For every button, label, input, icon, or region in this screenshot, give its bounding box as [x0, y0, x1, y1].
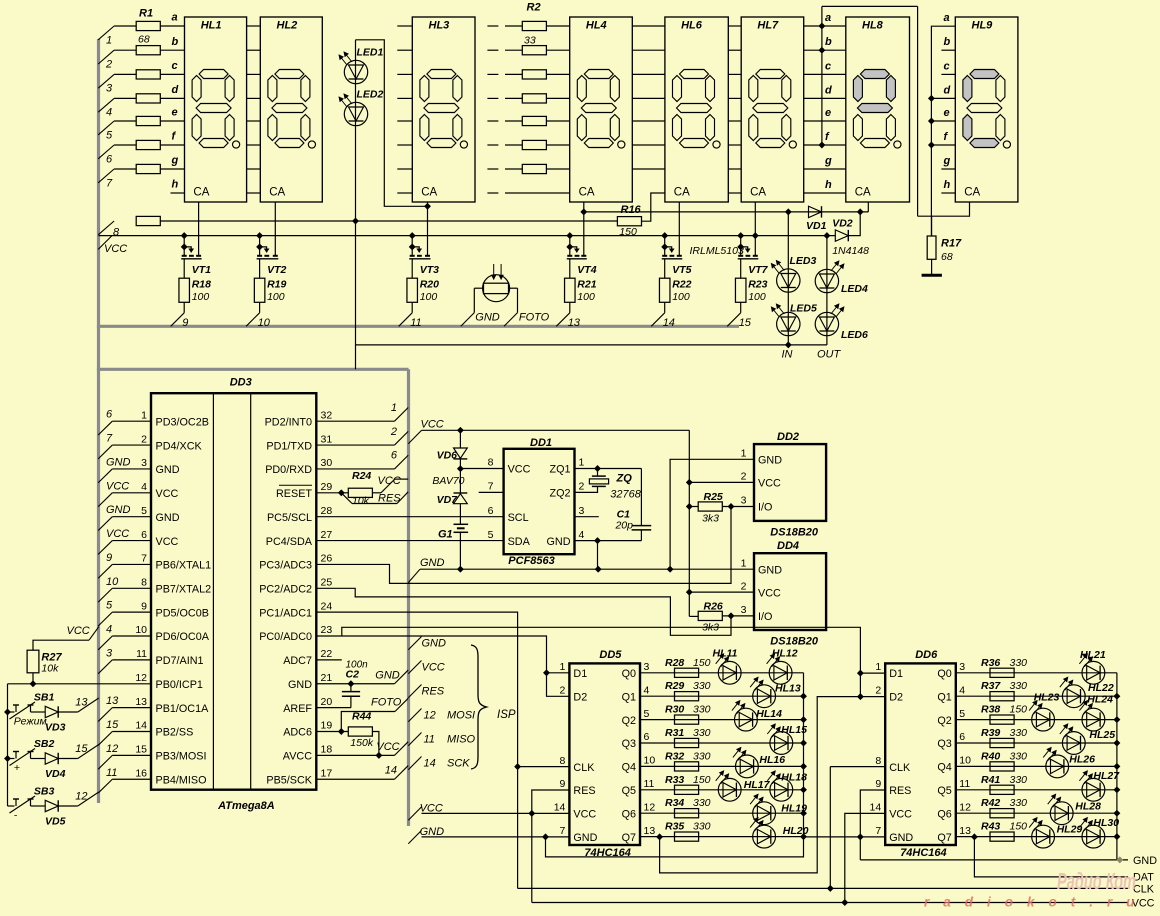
svg-text:VCC: VCC — [758, 478, 781, 490]
wire HL6-HL7 link row c — [728, 73, 741, 75]
svg-text:PB3/MOSI: PB3/MOSI — [156, 751, 207, 763]
wire pin 8 — [112, 587, 151, 589]
resistor row b — [136, 46, 160, 55]
svg-text:R22: R22 — [672, 279, 691, 291]
svg-text:LED1: LED1 — [357, 46, 384, 58]
svg-text:330: 330 — [1010, 797, 1028, 809]
svg-text:HL9: HL9 — [972, 20, 994, 32]
svg-text:9: 9 — [182, 317, 188, 329]
svg-text:SB1: SB1 — [34, 691, 55, 703]
wire DD4 VCC — [689, 591, 754, 593]
wire Q5 dd6 row — [956, 789, 1117, 791]
wire Q2 dd6 row — [956, 719, 1117, 721]
wire HL3 stub row f — [397, 144, 412, 146]
node dd4 vcc — [686, 589, 692, 595]
node HL3 CA junction — [425, 203, 431, 209]
svg-text:1: 1 — [741, 448, 747, 460]
node dd6 vcc bottom — [842, 900, 848, 906]
svg-text:VT5: VT5 — [672, 264, 691, 276]
svg-text:VD2: VD2 — [832, 217, 853, 229]
wire pin4 GND — [575, 540, 642, 542]
svg-text:5: 5 — [106, 129, 113, 141]
node dd5 res-vcc — [529, 811, 535, 817]
bus entry 4 — [98, 98, 114, 118]
node gnd dd2 column — [667, 566, 673, 572]
svg-text:VCC: VCC — [758, 587, 781, 599]
wire VCC dd5 row — [422, 812, 570, 814]
7-segment display HL6 — [665, 17, 728, 202]
svg-text:DD3: DD3 — [230, 376, 252, 388]
svg-text:ZQ1: ZQ1 — [550, 464, 571, 476]
photoresistor — [474, 264, 517, 313]
bus entry VCC r27 — [67, 625, 99, 640]
resistor R35 330 — [665, 821, 711, 842]
bus entry 10 — [246, 313, 271, 329]
node dd5 clk — [515, 764, 521, 770]
wire gnd drop — [597, 541, 599, 570]
LED LED5 — [771, 303, 817, 336]
svg-text:GND: GND — [156, 512, 180, 524]
svg-text:SB3: SB3 — [34, 785, 55, 797]
svg-text:VD1: VD1 — [806, 220, 827, 232]
wire VT2 CA drain vertical — [274, 202, 276, 256]
pin 14 DD5 VCC — [554, 802, 597, 821]
svg-text:7: 7 — [106, 177, 113, 189]
node r27 bottom — [30, 681, 36, 687]
wire HL3 stub row e — [397, 120, 412, 122]
svg-text:10: 10 — [135, 624, 147, 636]
LED LED1 — [339, 46, 384, 83]
pin 28 PC5/SCL — [267, 505, 332, 524]
svg-text:20p: 20p — [614, 519, 633, 531]
svg-text:HL17: HL17 — [744, 779, 771, 791]
svg-text:I/O: I/O — [758, 611, 772, 623]
svg-text:27: 27 — [321, 529, 333, 541]
svg-text:LED6: LED6 — [841, 329, 868, 341]
resistor R20 — [407, 259, 439, 313]
wire pin 2 — [112, 444, 151, 446]
svg-text:Q6: Q6 — [622, 808, 636, 820]
bus entry 13 left — [98, 695, 119, 721]
wire pin8 VCC — [460, 468, 503, 470]
bus entry 8 — [98, 221, 120, 239]
svg-text:1: 1 — [391, 402, 397, 414]
svg-text:150: 150 — [1010, 704, 1028, 716]
svg-text:PC5/SCL: PC5/SCL — [267, 512, 312, 524]
node sb2 — [5, 756, 11, 762]
svg-text:R32: R32 — [665, 750, 684, 762]
bus frame right vertical — [407, 369, 410, 826]
pin 14 PB2/SS — [135, 720, 193, 739]
svg-text:6: 6 — [488, 505, 494, 517]
svg-text:29: 29 — [321, 481, 333, 493]
bus entry 3 left — [98, 647, 113, 673]
svg-text:PD2/INT0: PD2/INT0 — [265, 416, 312, 428]
svg-text:32: 32 — [321, 409, 333, 421]
svg-text:25: 25 — [321, 576, 333, 588]
7-segment display HL2 — [260, 17, 322, 202]
pin 3 DD4 — [741, 604, 773, 623]
pin 3 DD5 Q0 — [622, 661, 650, 680]
LED HL19 — [750, 794, 807, 824]
svg-text:28: 28 — [321, 505, 333, 517]
resistor R32 330 — [665, 750, 711, 771]
svg-text:330: 330 — [1010, 657, 1028, 669]
svg-text:c: c — [944, 60, 950, 72]
ISP brace — [471, 645, 487, 769]
wire R2col lead left row b — [505, 49, 522, 51]
svg-text:15: 15 — [75, 743, 88, 755]
svg-text:GND: GND — [420, 557, 445, 569]
LED HL13 — [750, 677, 801, 707]
svg-text:VCC: VCC — [376, 741, 399, 753]
svg-text:100: 100 — [192, 291, 210, 303]
svg-text:VCC: VCC — [508, 464, 531, 476]
wire R2col to HL4 row e — [547, 120, 570, 122]
svg-text:GND: GND — [475, 312, 500, 324]
LED HL26 — [1043, 747, 1095, 777]
pin 1 DD6 D1 — [875, 661, 903, 680]
svg-text:4: 4 — [579, 529, 585, 541]
svg-text:4: 4 — [106, 624, 112, 636]
wire top loop right vertical — [917, 6, 919, 216]
svg-text:5: 5 — [106, 600, 113, 612]
svg-text:HL2: HL2 — [277, 20, 298, 32]
svg-text:I/O: I/O — [758, 502, 772, 514]
capacitor C2 — [342, 659, 368, 707]
svg-text:10: 10 — [106, 576, 119, 588]
bus entry 15 — [727, 313, 752, 329]
resistor row a R1 — [136, 21, 160, 30]
pin 2 DD6 D2 — [875, 685, 903, 704]
svg-text:R43: R43 — [981, 821, 1000, 833]
resistor R31 330 — [665, 727, 711, 748]
svg-text:11: 11 — [644, 778, 655, 790]
svg-text:Q1: Q1 — [937, 691, 951, 703]
svg-text:b: b — [172, 36, 179, 48]
svg-text:R36: R36 — [981, 657, 1000, 669]
wire dd6 CLK — [830, 766, 885, 768]
svg-text:15: 15 — [739, 317, 752, 329]
wire HL6-HL7 link row e — [728, 120, 741, 122]
wire HL8 segment feed vertical — [821, 6, 823, 145]
svg-text:12: 12 — [644, 801, 656, 813]
bus entry GND mid — [408, 557, 444, 583]
wire HL7-HL8 link row h — [804, 192, 846, 194]
svg-text:VD3: VD3 — [45, 722, 66, 734]
diode VD1 — [806, 206, 827, 232]
wire pin 5 — [112, 516, 151, 518]
pin 9 DD6 RES — [875, 778, 911, 797]
pin 2 DD4 — [741, 580, 781, 599]
svg-text:74HC164: 74HC164 — [900, 847, 946, 859]
wire row a to HL1 — [160, 25, 184, 27]
wire Q3 dd6 row — [956, 742, 1117, 744]
wire R2col lead left row a — [505, 25, 522, 27]
pin 15 PB3/MOSI — [135, 744, 206, 763]
pin 4 DD5 Q1 — [622, 684, 650, 703]
svg-text:IRLML5103: IRLML5103 — [690, 245, 744, 257]
wire HL9 stub row b — [941, 49, 955, 51]
bus entry 15 button — [75, 743, 99, 759]
svg-text:R28: R28 — [665, 657, 684, 669]
pin 1 PD3/OC2B — [141, 409, 209, 428]
svg-text:+: + — [14, 762, 20, 774]
bus entry 13 button — [75, 696, 99, 712]
bus entry VCC avcc — [376, 741, 408, 756]
pin 1 DD4 — [741, 557, 783, 576]
wire AVCC — [316, 754, 394, 756]
resistor R18 — [179, 259, 211, 313]
wire HL3 stub row a — [397, 25, 412, 27]
svg-text:PC0/ADC0: PC0/ADC0 — [259, 631, 312, 643]
svg-text:AVCC: AVCC — [283, 751, 312, 763]
wire HL8 CA down — [867, 202, 869, 212]
svg-text:15: 15 — [135, 744, 147, 756]
bus entry RES — [341, 492, 408, 505]
svg-text:21: 21 — [321, 672, 333, 684]
node dd6 d2 — [858, 694, 864, 700]
wire CA drive row — [584, 211, 869, 213]
svg-text:9: 9 — [875, 778, 881, 790]
pin 17 PB5/SCK — [266, 767, 332, 786]
svg-text:VT7: VT7 — [748, 264, 768, 276]
wire HL6-HL7 link row g — [728, 168, 741, 170]
svg-text:h: h — [944, 179, 951, 191]
LED LED2 — [339, 89, 384, 126]
bus entry FOTO right — [371, 696, 408, 711]
resistor R25 — [689, 491, 754, 524]
pin 26 PC3/ADC3 — [259, 553, 332, 572]
resistor R17 — [927, 216, 962, 274]
wire PC1 CLK net — [316, 612, 517, 888]
pin 5 DD5 Q2 — [622, 708, 650, 727]
svg-text:GND: GND — [889, 832, 913, 844]
svg-text:2: 2 — [875, 685, 881, 697]
svg-text:DD1: DD1 — [530, 437, 552, 449]
svg-text:R34: R34 — [665, 797, 684, 809]
svg-text:VCC: VCC — [156, 488, 179, 500]
wire HL6-HL7 link row d — [728, 97, 741, 99]
bus entry 6 right — [391, 450, 408, 469]
resistor R44 — [348, 710, 374, 749]
svg-text:6: 6 — [141, 529, 147, 541]
wire HL9 row e — [931, 120, 955, 122]
pin 8 PB7/XTAL2 — [141, 576, 211, 595]
svg-text:PB1/OC1A: PB1/OC1A — [156, 703, 210, 715]
pin 7 DD1 left — [488, 481, 494, 493]
LED LED6 — [815, 304, 868, 341]
svg-text:7: 7 — [141, 553, 147, 565]
resistor R23 — [735, 259, 767, 313]
svg-text:ZQ: ZQ — [616, 473, 633, 485]
break dash row b — [487, 49, 498, 51]
node LED column row8 — [353, 218, 359, 224]
wire HL1-HL2 link row g — [247, 168, 261, 170]
pin 10 PD6/OC0A — [135, 624, 209, 643]
svg-text:Q0: Q0 — [622, 668, 636, 680]
svg-text:G1: G1 — [438, 529, 453, 541]
resistor R2 column row f — [522, 140, 546, 149]
wire HL7-HL8 link row g — [804, 168, 846, 170]
svg-text:2: 2 — [141, 433, 147, 445]
pin 31 PD1/TXD — [266, 433, 332, 452]
LED HL28 — [1048, 794, 1101, 824]
resistor row d — [136, 94, 160, 103]
pin 3 DD6 Q0 — [937, 661, 965, 680]
wire pin 13 — [112, 707, 151, 709]
wire HL4-HL6 link row c — [632, 73, 665, 75]
wire pin 1 — [112, 420, 151, 422]
svg-text:g: g — [824, 155, 832, 167]
wire HL1-HL2 link row e — [247, 120, 261, 122]
wire VCC row — [99, 235, 836, 237]
svg-text:R19: R19 — [267, 279, 286, 291]
svg-text:R31: R31 — [665, 727, 684, 739]
svg-text:14: 14 — [663, 317, 675, 329]
svg-text:330: 330 — [1010, 750, 1028, 762]
svg-text:8: 8 — [560, 755, 566, 767]
wire HL4-HL6 link row g — [632, 168, 665, 170]
svg-text:R16: R16 — [621, 204, 642, 216]
pin 24 PC1/ADC1 — [259, 600, 332, 619]
wire VD2 to node — [849, 212, 861, 236]
svg-text:6: 6 — [106, 153, 113, 165]
wire HL1-HL2 link row d — [247, 97, 261, 99]
pin 5 DD1 left — [488, 529, 531, 548]
pin 14 DD6 VCC — [870, 802, 913, 821]
node r26 right — [728, 613, 734, 619]
svg-text:33: 33 — [524, 35, 536, 47]
break dash row e — [487, 120, 498, 122]
svg-text:C2: C2 — [346, 668, 360, 680]
svg-text:2: 2 — [105, 59, 112, 71]
wire serial chain dd5-dd6 — [660, 697, 886, 873]
node AVCC — [376, 752, 382, 758]
pin 6 DD6 Q3 — [937, 731, 965, 750]
pin 7 PB6/XTAL1 — [141, 553, 211, 572]
svg-text:4: 4 — [959, 684, 965, 696]
pin 2 DD1 right — [550, 481, 585, 500]
svg-text:R35: R35 — [665, 821, 684, 833]
svg-text:VCC: VCC — [106, 528, 129, 540]
svg-text:VT2: VT2 — [267, 264, 286, 276]
svg-text:VCC: VCC — [106, 480, 129, 492]
svg-text:ZQ2: ZQ2 — [550, 488, 571, 500]
node HL8 b — [819, 47, 825, 53]
svg-text:11: 11 — [424, 734, 435, 746]
svg-text:g: g — [943, 155, 951, 167]
LED HL23 — [1029, 692, 1059, 731]
svg-text:26: 26 — [321, 553, 333, 565]
wire PC2 to DD4 I/O — [316, 588, 731, 635]
wire HL1-HL2 link row h — [247, 192, 261, 194]
resistor R42 330 — [981, 797, 1027, 818]
break dash row g — [487, 168, 498, 170]
svg-text:a: a — [825, 12, 831, 24]
wire FOTO net — [341, 712, 395, 732]
wire Q7 dd6 row — [956, 836, 1117, 838]
svg-text:68: 68 — [138, 34, 150, 46]
svg-text:HL21: HL21 — [1080, 649, 1106, 661]
wire HL1-HL2 link row f — [247, 144, 261, 146]
pin 6 VCC — [141, 529, 178, 548]
svg-text:RES: RES — [378, 493, 401, 505]
svg-text:HL13: HL13 — [775, 682, 801, 694]
svg-text:a: a — [172, 12, 178, 24]
node rail dd5 Q2 — [801, 717, 807, 723]
node dd5 d1 — [544, 670, 550, 676]
pin 9 DD5 RES — [560, 778, 596, 797]
wire GND long row — [420, 568, 754, 570]
wire data branch upper — [342, 627, 861, 696]
svg-text:330: 330 — [693, 797, 711, 809]
svg-text:VD7: VD7 — [437, 494, 459, 506]
LED HL17 — [716, 771, 771, 801]
wire pin 9 — [112, 611, 151, 613]
svg-text:CA: CA — [674, 186, 690, 198]
pin 7 DD5 GND — [560, 825, 598, 844]
7-segment display HL9 — [955, 17, 1018, 202]
wire row e to HL1 — [160, 120, 184, 122]
svg-text:R39: R39 — [981, 727, 1000, 739]
svg-text:e: e — [172, 107, 178, 119]
capacitor C1 — [614, 469, 651, 541]
svg-text:17: 17 — [321, 767, 333, 779]
pin 1 DD2 — [741, 448, 783, 467]
button SB2 — [8, 738, 55, 774]
resistor R2 column row e — [522, 116, 546, 125]
svg-text:b: b — [825, 36, 832, 48]
svg-text:PCF8563: PCF8563 — [508, 555, 554, 567]
break dash row a — [487, 25, 498, 27]
svg-text:Q6: Q6 — [937, 808, 951, 820]
node gnd vd column — [458, 566, 464, 572]
node VD2 top — [857, 209, 863, 215]
svg-text:22: 22 — [321, 648, 333, 660]
svg-text:5: 5 — [959, 708, 965, 720]
wire VT5 CA drain vertical — [678, 202, 680, 256]
svg-text:2: 2 — [560, 685, 566, 697]
wire HL7-HL8 link row c — [804, 73, 846, 75]
node gray gnd — [1117, 857, 1123, 863]
svg-text:HL23: HL23 — [1034, 692, 1060, 704]
button SB3 — [8, 785, 55, 821]
svg-text:ATmega8A: ATmega8A — [217, 800, 275, 812]
node ZQ1 — [595, 466, 601, 472]
svg-text:12: 12 — [135, 672, 147, 684]
svg-text:IN: IN — [782, 349, 793, 361]
ISP entry RES — [408, 685, 444, 698]
svg-text:HL6: HL6 — [681, 20, 703, 32]
svg-text:VCC: VCC — [420, 803, 443, 815]
IC DD4 DS18B20 box — [754, 540, 826, 647]
pin 2 DD5 D2 — [560, 685, 588, 704]
svg-text:PD3/OC2B: PD3/OC2B — [156, 416, 209, 428]
wire Q6 dd6 row — [956, 812, 1117, 814]
wire SDA — [316, 540, 503, 542]
svg-text:VCC: VCC — [67, 625, 90, 637]
wire ADC7 stub — [316, 659, 342, 661]
wire VT1 CA drain vertical — [198, 202, 200, 256]
svg-text:GND: GND — [156, 464, 180, 476]
svg-text:HL8: HL8 — [862, 20, 884, 32]
svg-text:VCC: VCC — [104, 243, 127, 255]
wire LED rail dd6 — [1116, 673, 1118, 860]
svg-text:Радио Кот: Радио Кот — [1057, 868, 1136, 894]
wire HL7-HL8 link row d — [804, 97, 846, 99]
svg-text:1: 1 — [875, 661, 881, 673]
